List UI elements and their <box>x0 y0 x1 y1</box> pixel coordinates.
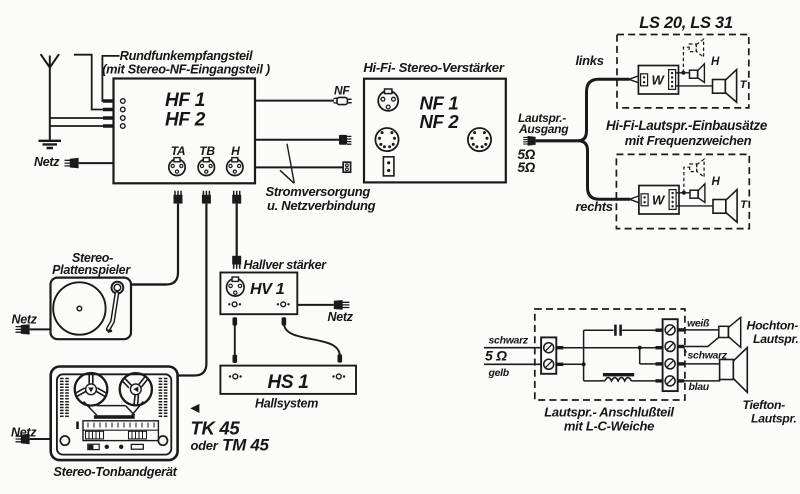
mains plug (record player) <box>16 324 30 334</box>
speaker cable right branch <box>578 141 630 200</box>
reverb unit HS1 box <box>220 366 356 394</box>
wire HF to NF plug <box>255 100 334 102</box>
button dot 2 <box>119 445 123 449</box>
input wire gelb <box>484 363 541 365</box>
speaker cable left branch <box>578 79 630 141</box>
crossover W box rechts <box>639 186 679 215</box>
wire TB to tape recorder <box>177 204 207 376</box>
svg-text:Netz: Netz <box>34 155 60 169</box>
wire to woofer rechts <box>676 205 713 207</box>
plug below H <box>232 191 241 204</box>
svg-text:Hi-Fi- Stereo-Verstärker: Hi-Fi- Stereo-Verstärker <box>363 60 505 75</box>
svg-text:H: H <box>712 176 721 188</box>
svg-text:5Ω: 5Ω <box>518 160 536 175</box>
dashed alternate tweeter rechts <box>684 159 704 193</box>
black multi-pin plug <box>339 135 351 145</box>
svg-text:Hallver stärker: Hallver stärker <box>244 258 328 272</box>
scale panel <box>83 421 158 441</box>
svg-text:Plattenspieler: Plattenspieler <box>52 263 131 277</box>
output wire 3 <box>678 362 720 365</box>
wire HF to NF box (mains link) <box>255 166 343 168</box>
svg-text:HV 1: HV 1 <box>250 281 285 298</box>
left tape reel <box>75 373 108 406</box>
DIN socket H <box>227 158 243 176</box>
DIN speaker socket left <box>375 128 398 151</box>
svg-text:H: H <box>711 56 720 68</box>
wire Netz to record player <box>30 328 51 330</box>
ground <box>39 141 62 148</box>
wire schwarz to outputs <box>556 348 662 364</box>
svg-text:HF 1: HF 1 <box>165 90 205 111</box>
output terminal strip <box>663 319 678 391</box>
wire to label (tuner input 1) <box>102 56 119 101</box>
HV1 terminal right <box>277 302 290 307</box>
wire stubs at HF box terminals <box>103 101 113 126</box>
HS1 terminal right <box>332 374 345 379</box>
DIN socket TA <box>169 158 185 176</box>
dashed cabinet box rechts <box>616 154 749 228</box>
output strip links <box>669 70 676 90</box>
right speaker grille <box>159 379 169 417</box>
inductor branch wire <box>584 380 663 382</box>
tweeter links <box>690 64 705 83</box>
cable HV1 to HS1 right (curved) <box>282 317 343 362</box>
speaker cable trunk <box>536 139 578 142</box>
svg-text:Hallsystem: Hallsystem <box>255 397 318 411</box>
output wire schwarz 2 <box>678 337 719 346</box>
HF box terminal circles <box>121 99 126 129</box>
svg-text:gelb: gelb <box>488 367 510 379</box>
cable wedge rechts <box>630 196 639 203</box>
svg-text:Lautspr.: Lautspr. <box>753 332 798 346</box>
svg-text:HS 1: HS 1 <box>267 372 308 393</box>
svg-text:W: W <box>652 193 666 208</box>
DIN speaker socket right <box>468 128 491 151</box>
leader line to wire 2 <box>287 144 294 183</box>
output strip rechts <box>669 190 676 210</box>
svg-text:Hi-Fi-Lautspr.-Einbausätze: Hi-Fi-Lautspr.-Einbausätze <box>606 118 768 133</box>
wire to tweeter rechts <box>676 192 690 194</box>
dashed cabinet box links <box>617 35 749 108</box>
platter spindle <box>77 306 82 311</box>
wire antenna to box <box>50 117 104 119</box>
HS1 terminal left <box>229 374 242 379</box>
wire record player output <box>131 283 166 285</box>
junction dot rechts <box>682 191 686 195</box>
speaker output plug <box>523 136 535 146</box>
NF amplifier box <box>364 79 506 183</box>
button dot 1 <box>105 445 109 449</box>
svg-text:Lautspr.: Lautspr. <box>751 412 796 426</box>
leader tick schwarz <box>684 347 687 353</box>
leader line to wire 3 <box>280 170 294 183</box>
svg-text:5 Ω: 5 Ω <box>485 348 507 364</box>
DIN socket NF input <box>378 89 398 111</box>
DIN socket TB <box>198 158 214 176</box>
junction dot gelb <box>582 362 586 366</box>
input wire schwarz <box>484 347 541 349</box>
cable wedge links <box>629 76 638 83</box>
wire gelb to filters <box>556 330 583 381</box>
HV1 terminal left <box>228 302 241 307</box>
svg-text:NF: NF <box>334 84 350 98</box>
wire to tweeter links <box>676 72 690 74</box>
plug below TB <box>202 191 211 204</box>
svg-text:Stereo-Tonbandgerät: Stereo-Tonbandgerät <box>53 464 177 479</box>
small button rect <box>131 444 143 449</box>
svg-text:TA: TA <box>171 144 186 158</box>
record player box <box>51 278 132 340</box>
right tape reel <box>120 373 152 405</box>
plug below TA <box>174 191 183 204</box>
svg-text:Netz: Netz <box>328 310 354 324</box>
woofer rechts <box>713 190 737 223</box>
tonearm <box>108 282 124 332</box>
svg-text:mit L-C-Weiche: mit L-C-Weiche <box>564 419 654 434</box>
arrow to tape recorder <box>190 404 199 413</box>
dashed crossover box <box>535 309 685 400</box>
svg-text:weiß: weiß <box>687 318 710 330</box>
svg-text:Hochton-: Hochton- <box>747 319 799 333</box>
switch with dots <box>88 444 99 449</box>
wire H to reverb amplifier <box>236 204 238 256</box>
capacitor branch wire <box>584 329 663 331</box>
svg-text:Lautspr.- Anschlußteil: Lautspr.- Anschlußteil <box>544 405 674 420</box>
svg-text:H: H <box>231 144 240 158</box>
mains plug (tape) <box>16 434 30 444</box>
tape recorder inner panel <box>57 374 171 454</box>
svg-text:rechts: rechts <box>576 199 613 214</box>
NF cable plug <box>334 97 352 104</box>
LEFT SPEAKER CABINET (links) <box>617 35 749 108</box>
input strip rechts <box>641 194 648 206</box>
svg-text:LS 20, LS 31: LS 20, LS 31 <box>639 14 733 32</box>
woofer links <box>713 70 737 103</box>
inductor L <box>603 373 634 381</box>
cable HV1 to HS1 left <box>233 317 238 363</box>
svg-text:TM 45: TM 45 <box>222 436 270 455</box>
HF receiver box <box>114 79 256 184</box>
wire dipole stub (tuner input 2) <box>74 55 104 110</box>
tape recorder outer case <box>51 367 178 461</box>
terminal strip in NF box <box>383 157 394 176</box>
antenna <box>41 54 59 140</box>
plug into HV1 <box>232 256 241 269</box>
wire Netz to tape recorder <box>30 438 51 440</box>
right knob <box>158 436 167 445</box>
left knob <box>60 436 69 445</box>
junction dot links <box>681 71 685 75</box>
wire to woofer links <box>676 85 713 87</box>
wire TA to record player <box>131 204 178 285</box>
left speaker grille <box>60 379 70 417</box>
crossover W box links <box>638 66 678 95</box>
dashed alternate tweeter links <box>683 39 703 73</box>
woofer Tiefton speaker <box>720 348 748 393</box>
svg-text:W: W <box>652 73 666 88</box>
wire Netz to HF box <box>79 162 114 164</box>
capacitor C <box>615 325 620 336</box>
mains plug (HF) <box>65 158 79 168</box>
svg-text:Netz: Netz <box>12 313 38 327</box>
svg-text:(mit Stereo-NF-Eingangsteil ): (mit Stereo-NF-Eingangsteil ) <box>102 62 270 77</box>
tweeter Hochton speaker <box>719 317 741 347</box>
svg-text:Ausgang: Ausgang <box>518 122 569 136</box>
input strip links <box>641 74 648 86</box>
wire HV1 to Netz plug <box>297 304 334 306</box>
pause lever mark <box>76 422 79 430</box>
wire HF to NF box (power link) <box>255 139 339 141</box>
reverb amplifier HV1 box <box>220 273 297 315</box>
mains connector block <box>343 162 350 172</box>
capstan bar <box>94 415 135 419</box>
tape path trapezoid <box>84 402 144 416</box>
turntable platter <box>53 282 105 334</box>
output wire weiss <box>678 328 719 331</box>
svg-text:links: links <box>576 53 604 68</box>
svg-text:u. Netzverbindung: u. Netzverbindung <box>267 198 376 213</box>
input terminal strip <box>541 337 556 373</box>
output wire blau <box>678 379 720 381</box>
svg-text:schwarz: schwarz <box>489 335 529 347</box>
DIN socket HV1 <box>227 277 245 296</box>
tweeter rechts <box>690 184 705 203</box>
svg-text:blau: blau <box>689 381 710 393</box>
mains plug (HV1) <box>334 300 350 310</box>
junction dot schwarz <box>638 346 642 350</box>
svg-text:mit Frequenzweichen: mit Frequenzweichen <box>625 133 752 148</box>
svg-text:Tiefton-: Tiefton- <box>743 398 786 412</box>
svg-text:NF 2: NF 2 <box>420 111 460 132</box>
RIGHT SPEAKER CABINET (rechts) <box>616 154 749 228</box>
svg-text:oder: oder <box>191 438 219 453</box>
wire ground to box <box>50 125 104 127</box>
svg-text:HF 2: HF 2 <box>165 110 206 131</box>
wire tape output <box>177 374 178 376</box>
svg-text:TB: TB <box>199 144 215 158</box>
svg-text:Stromversorgung: Stromversorgung <box>266 184 371 199</box>
